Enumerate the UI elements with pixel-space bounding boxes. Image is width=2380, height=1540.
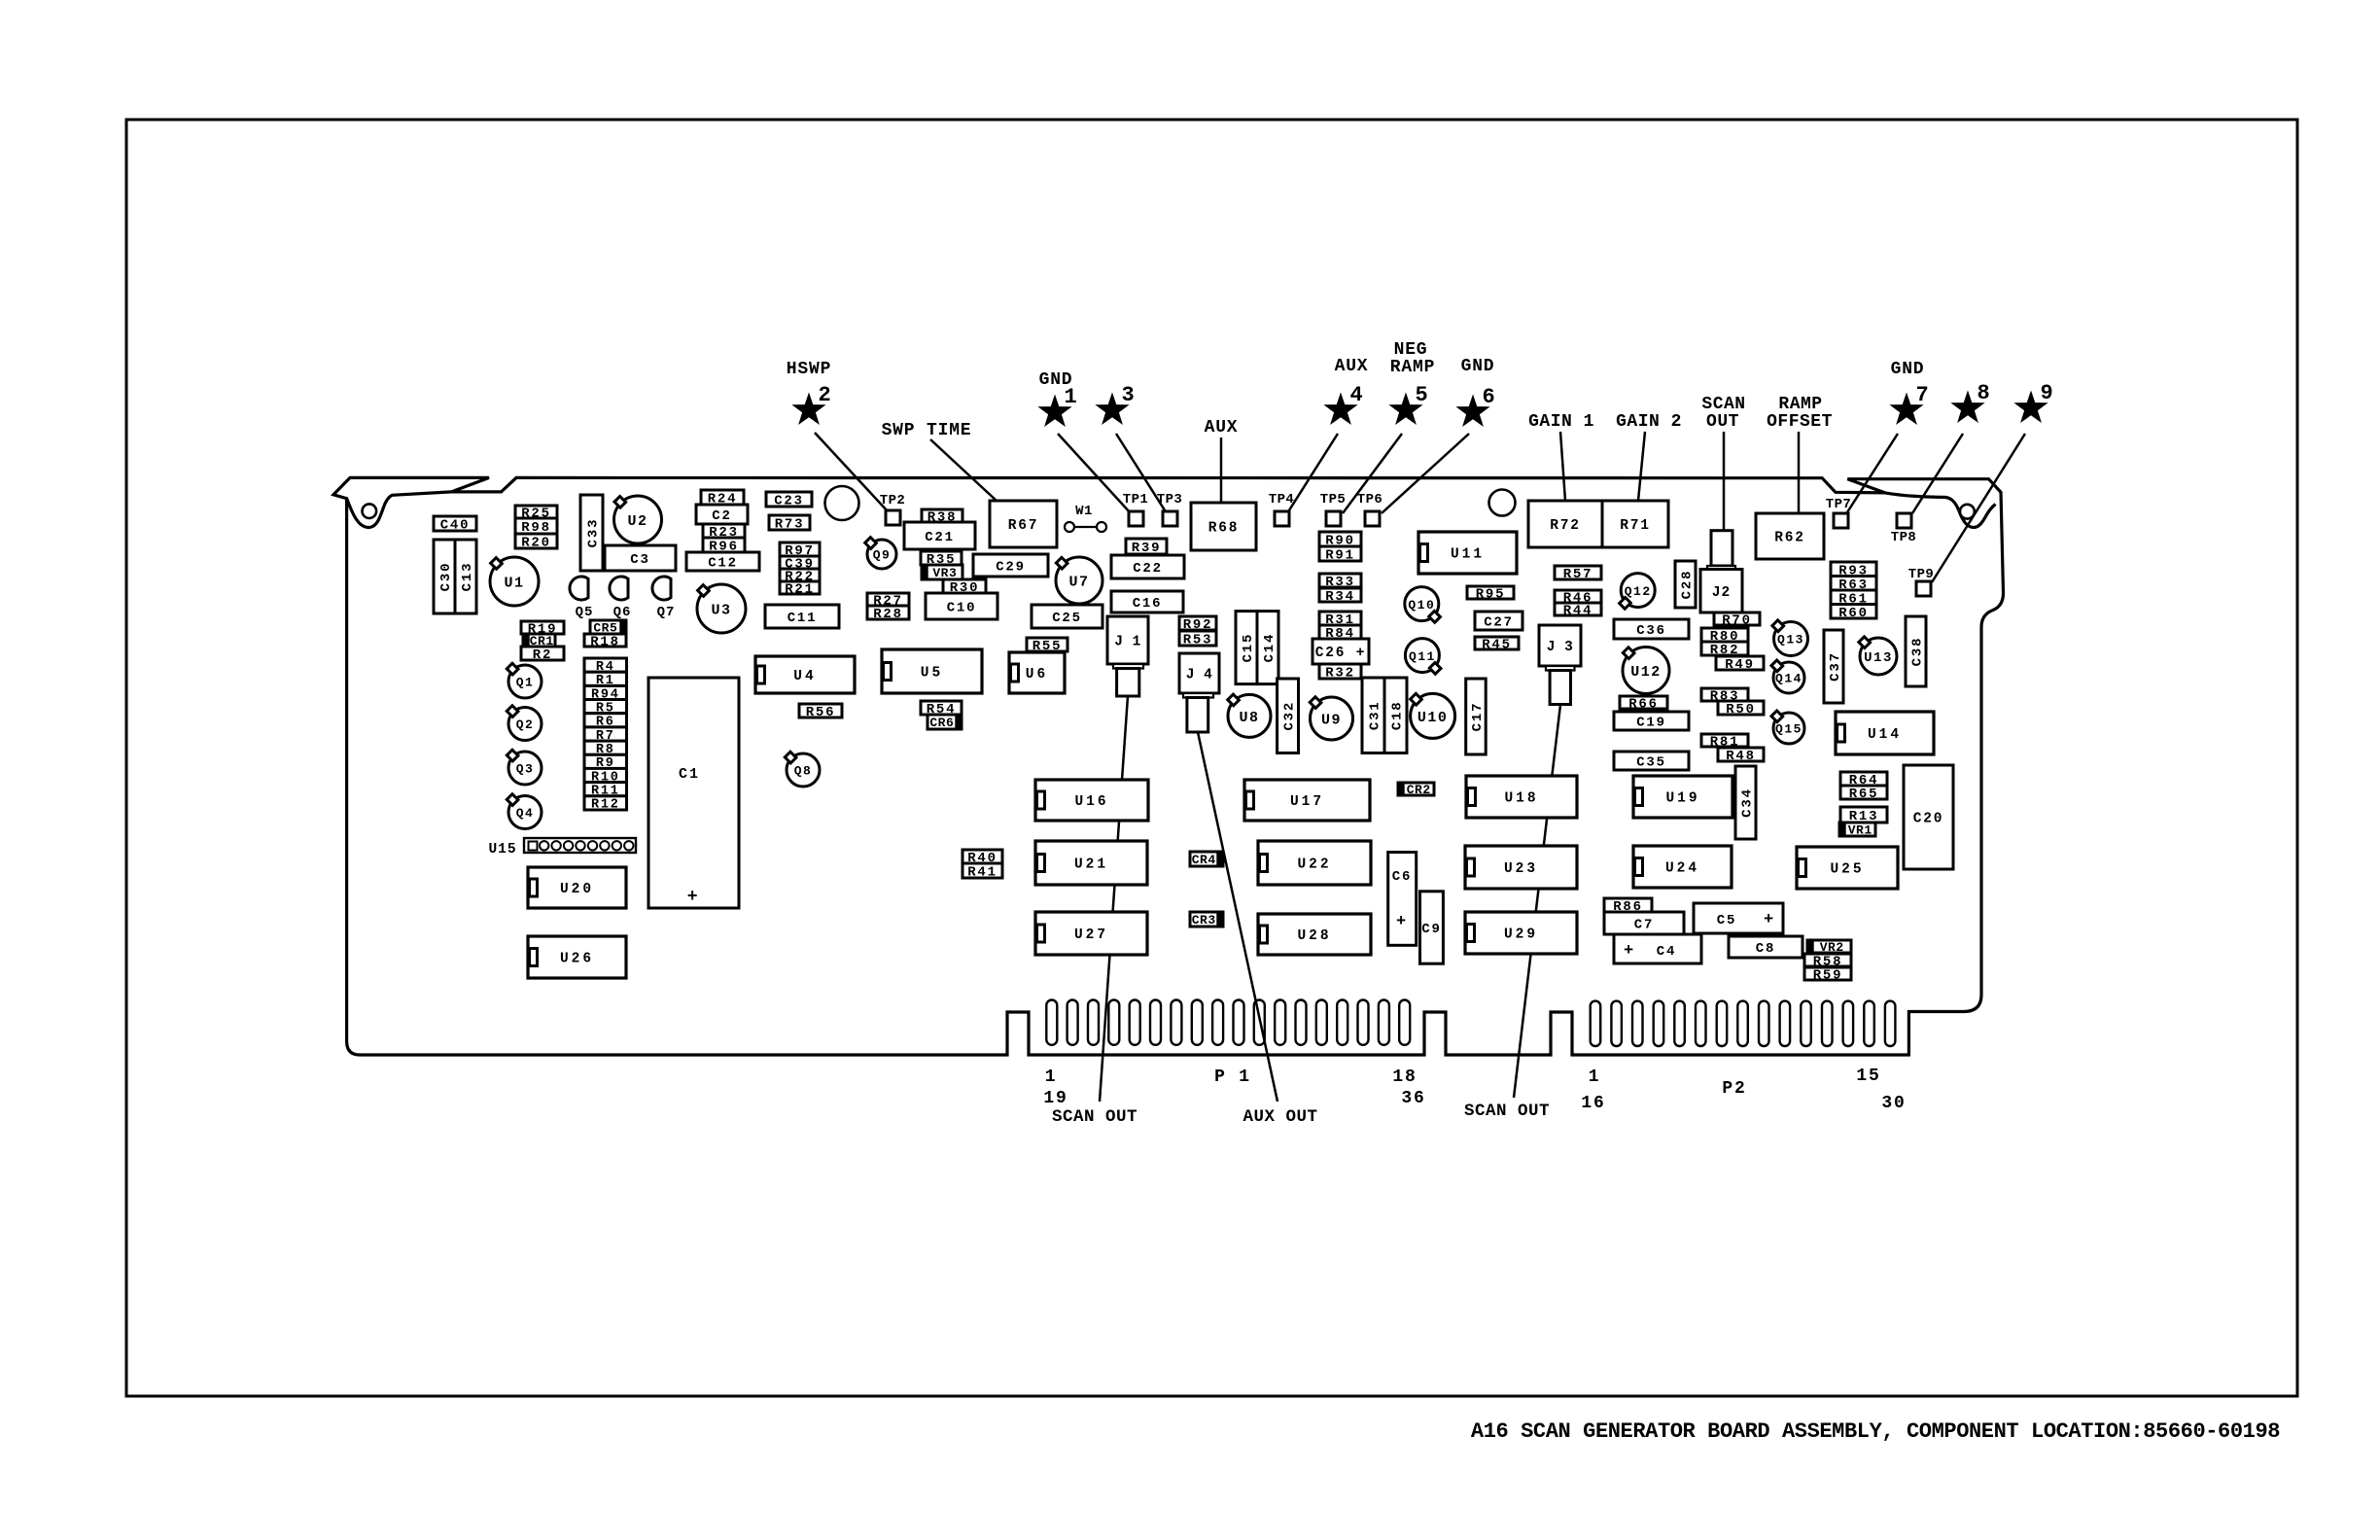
- svg-text:TP4: TP4: [1269, 492, 1294, 507]
- svg-text:SCAN: SCAN: [1701, 395, 1745, 414]
- svg-text:6: 6: [1482, 385, 1496, 409]
- svg-text:J2: J2: [1712, 585, 1731, 601]
- svg-text:U11: U11: [1451, 547, 1485, 563]
- svg-text:U7: U7: [1068, 574, 1089, 590]
- svg-text:U6: U6: [1026, 667, 1048, 682]
- svg-text:P 1: P 1: [1214, 1067, 1251, 1087]
- svg-text:Q13: Q13: [1777, 633, 1804, 647]
- svg-text:3: 3: [1121, 383, 1136, 407]
- svg-text:C27: C27: [1484, 615, 1514, 631]
- svg-text:R91: R91: [1325, 548, 1355, 564]
- svg-text:C30: C30: [438, 562, 454, 592]
- svg-text:C25: C25: [1052, 611, 1082, 626]
- svg-text:TP5: TP5: [1320, 492, 1346, 507]
- svg-text:TP3: TP3: [1157, 492, 1182, 507]
- svg-text:SWP TIME: SWP TIME: [882, 421, 972, 440]
- svg-text:J 3: J 3: [1547, 640, 1574, 655]
- svg-text:C1: C1: [679, 766, 700, 783]
- svg-text:U15: U15: [488, 842, 516, 857]
- svg-text:C4: C4: [1657, 944, 1676, 960]
- svg-text:C20: C20: [1913, 812, 1944, 827]
- svg-text:C17: C17: [1470, 702, 1486, 732]
- svg-text:5: 5: [1415, 383, 1429, 407]
- svg-text:TP1: TP1: [1123, 492, 1148, 507]
- svg-text:SCAN OUT: SCAN OUT: [1052, 1107, 1137, 1127]
- svg-text:C19: C19: [1636, 716, 1666, 731]
- svg-text:R72: R72: [1550, 518, 1581, 534]
- svg-text:C15: C15: [1241, 633, 1256, 663]
- svg-text:U22: U22: [1297, 857, 1331, 873]
- svg-text:GND: GND: [1461, 357, 1495, 376]
- svg-text:R45: R45: [1482, 638, 1512, 653]
- svg-text:C32: C32: [1282, 701, 1298, 731]
- svg-text:C2: C2: [712, 508, 731, 524]
- svg-text:GND: GND: [1891, 360, 1925, 379]
- svg-text:R49: R49: [1725, 657, 1755, 673]
- svg-text:C38: C38: [1910, 637, 1926, 667]
- svg-text:U21: U21: [1074, 857, 1108, 873]
- svg-text:U17: U17: [1290, 794, 1324, 810]
- svg-text:R71: R71: [1620, 518, 1651, 534]
- svg-text:C7: C7: [1634, 918, 1654, 933]
- svg-text:R62: R62: [1774, 531, 1805, 546]
- svg-text:Q11: Q11: [1409, 649, 1436, 664]
- svg-text:A16 SCAN GENERATOR BOARD ASSEM: A16 SCAN GENERATOR BOARD ASSEMBLY, COMPO…: [1471, 1419, 2280, 1444]
- svg-text:R18: R18: [590, 635, 620, 650]
- svg-text:C33: C33: [586, 518, 602, 548]
- svg-text:C40: C40: [440, 518, 471, 534]
- svg-text:C31: C31: [1368, 700, 1383, 730]
- svg-text:P2: P2: [1722, 1079, 1746, 1099]
- svg-text:1: 1: [1589, 1067, 1601, 1087]
- svg-text:U27: U27: [1074, 927, 1108, 943]
- svg-text:R20: R20: [521, 536, 551, 551]
- svg-text:C12: C12: [708, 556, 738, 572]
- svg-text:TP9: TP9: [1908, 567, 1934, 582]
- svg-text:18: 18: [1392, 1067, 1417, 1087]
- svg-text:RAMP: RAMP: [1778, 395, 1822, 414]
- svg-text:W1: W1: [1075, 504, 1093, 519]
- svg-text:+: +: [1764, 911, 1775, 929]
- svg-text:C35: C35: [1636, 755, 1666, 771]
- svg-text:Q15: Q15: [1775, 722, 1802, 737]
- svg-text:Q10: Q10: [1408, 598, 1435, 612]
- svg-text:R48: R48: [1726, 749, 1756, 764]
- svg-text:R34: R34: [1325, 589, 1355, 605]
- svg-text:U16: U16: [1074, 794, 1108, 810]
- svg-text:R66: R66: [1628, 697, 1659, 713]
- svg-text:HSWP: HSWP: [787, 360, 831, 379]
- svg-text:GAIN 2: GAIN 2: [1616, 412, 1682, 432]
- svg-text:R68: R68: [1208, 521, 1240, 537]
- svg-text:8: 8: [1977, 381, 1991, 405]
- svg-text:U1: U1: [504, 575, 524, 591]
- svg-text:AUX: AUX: [1335, 357, 1369, 376]
- svg-text:R57: R57: [1563, 567, 1593, 582]
- svg-text:U28: U28: [1297, 928, 1331, 944]
- svg-text:R2: R2: [533, 647, 552, 663]
- svg-text:CR4: CR4: [1192, 853, 1216, 867]
- svg-text:CR2: CR2: [1407, 783, 1431, 797]
- svg-text:GND: GND: [1039, 370, 1073, 390]
- svg-text:AUX OUT: AUX OUT: [1242, 1107, 1317, 1127]
- svg-text:R73: R73: [775, 517, 805, 533]
- svg-text:NEG: NEG: [1394, 340, 1428, 360]
- svg-text:C36: C36: [1636, 623, 1666, 639]
- svg-text:TP7: TP7: [1826, 497, 1851, 512]
- svg-text:R12: R12: [591, 798, 620, 813]
- svg-text:9: 9: [2040, 381, 2054, 405]
- svg-text:R59: R59: [1813, 968, 1843, 984]
- svg-text:U24: U24: [1665, 861, 1699, 877]
- svg-text:C3: C3: [630, 552, 649, 568]
- svg-text:C29: C29: [996, 560, 1026, 576]
- svg-text:U29: U29: [1504, 927, 1538, 943]
- svg-text:2: 2: [818, 383, 832, 407]
- svg-text:C26 +: C26 +: [1315, 646, 1367, 661]
- svg-text:U23: U23: [1504, 861, 1538, 877]
- svg-text:+: +: [1624, 942, 1635, 961]
- svg-text:SCAN OUT: SCAN OUT: [1464, 1102, 1550, 1121]
- svg-text:U14: U14: [1868, 727, 1902, 743]
- svg-text:U12: U12: [1630, 664, 1662, 681]
- svg-text:C8: C8: [1756, 941, 1775, 957]
- svg-text:Q3: Q3: [516, 762, 535, 777]
- svg-text:C16: C16: [1133, 596, 1163, 612]
- svg-text:CR3: CR3: [1192, 913, 1216, 927]
- svg-text:1: 1: [1045, 1067, 1058, 1087]
- svg-text:GAIN 1: GAIN 1: [1528, 412, 1594, 432]
- svg-text:U19: U19: [1665, 791, 1699, 807]
- svg-text:16: 16: [1581, 1094, 1605, 1113]
- svg-text:TP8: TP8: [1891, 530, 1916, 545]
- svg-text:R21: R21: [785, 582, 815, 598]
- svg-text:Q1: Q1: [516, 676, 535, 690]
- svg-text:Q5: Q5: [576, 605, 594, 620]
- svg-text:30: 30: [1881, 1094, 1906, 1113]
- svg-text:C37: C37: [1828, 651, 1843, 682]
- svg-text:19: 19: [1043, 1089, 1067, 1108]
- svg-text:RAMP: RAMP: [1390, 358, 1435, 377]
- svg-text:Q4: Q4: [516, 806, 535, 821]
- svg-text:U5: U5: [921, 666, 943, 682]
- svg-text:TP6: TP6: [1357, 492, 1382, 507]
- svg-text:C14: C14: [1262, 633, 1277, 663]
- svg-text:Q8: Q8: [794, 764, 813, 779]
- svg-text:U10: U10: [1417, 710, 1449, 726]
- svg-text:C21: C21: [925, 530, 955, 545]
- svg-text:4: 4: [1349, 383, 1364, 407]
- svg-text:J 1: J 1: [1114, 635, 1141, 650]
- svg-text:R32: R32: [1325, 666, 1355, 682]
- svg-text:7: 7: [1915, 383, 1930, 407]
- svg-text:R53: R53: [1183, 633, 1213, 648]
- svg-text:OFFSET: OFFSET: [1767, 412, 1833, 432]
- svg-text:Q2: Q2: [516, 717, 535, 732]
- svg-text:R67: R67: [1008, 518, 1039, 534]
- svg-text:U3: U3: [711, 602, 731, 618]
- svg-text:U9: U9: [1321, 712, 1342, 728]
- svg-text:R41: R41: [967, 865, 997, 881]
- svg-text:C10: C10: [947, 601, 977, 616]
- svg-text:CR6: CR6: [929, 716, 954, 730]
- svg-text:C22: C22: [1133, 561, 1163, 577]
- svg-text:R95: R95: [1476, 587, 1506, 603]
- svg-text:C23: C23: [774, 494, 804, 509]
- svg-text:U13: U13: [1864, 650, 1893, 666]
- svg-text:+: +: [1396, 913, 1408, 931]
- svg-text:R28: R28: [873, 607, 903, 622]
- svg-text:Q12: Q12: [1625, 584, 1652, 599]
- svg-text:15: 15: [1856, 1067, 1880, 1086]
- svg-text:R56: R56: [806, 705, 836, 720]
- svg-text:R70: R70: [1722, 613, 1752, 629]
- svg-text:U8: U8: [1239, 710, 1259, 726]
- svg-text:R60: R60: [1838, 606, 1869, 621]
- svg-text:R55: R55: [1032, 639, 1063, 654]
- svg-text:C11: C11: [787, 611, 818, 626]
- svg-text:J 4: J 4: [1186, 668, 1213, 683]
- svg-text:C18: C18: [1390, 700, 1406, 730]
- svg-text:C34: C34: [1740, 787, 1756, 818]
- svg-text:Q6: Q6: [613, 605, 632, 620]
- svg-text:36: 36: [1401, 1089, 1425, 1108]
- svg-text:VR1: VR1: [1848, 823, 1872, 838]
- svg-text:Q9: Q9: [873, 548, 892, 563]
- svg-text:U25: U25: [1830, 862, 1864, 878]
- svg-text:AUX: AUX: [1205, 418, 1239, 437]
- svg-text:C28: C28: [1680, 570, 1696, 600]
- svg-text:C9: C9: [1421, 922, 1441, 937]
- svg-text:U2: U2: [627, 513, 647, 530]
- svg-text:U26: U26: [560, 952, 594, 967]
- svg-text:R50: R50: [1726, 702, 1756, 717]
- svg-text:TP2: TP2: [880, 493, 905, 508]
- svg-text:R65: R65: [1849, 787, 1879, 802]
- svg-text:R44: R44: [1563, 604, 1593, 619]
- svg-text:+: +: [687, 888, 700, 907]
- svg-text:C6: C6: [1392, 869, 1412, 885]
- svg-text:U18: U18: [1504, 791, 1538, 807]
- svg-text:C13: C13: [460, 562, 475, 592]
- svg-text:C5: C5: [1717, 913, 1736, 928]
- svg-text:OUT: OUT: [1706, 412, 1739, 432]
- svg-text:U20: U20: [560, 882, 594, 897]
- svg-text:U4: U4: [793, 669, 816, 684]
- svg-text:Q7: Q7: [657, 605, 676, 620]
- svg-text:Q14: Q14: [1775, 672, 1802, 686]
